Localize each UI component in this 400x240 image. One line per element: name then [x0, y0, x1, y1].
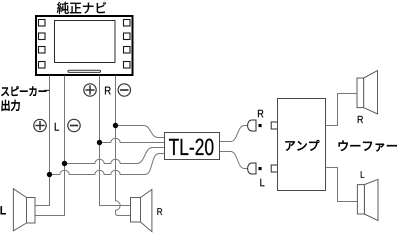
junction dot L-: [62, 161, 67, 166]
wire amp to woofer R: [326, 94, 358, 126]
nav connector square right 4: [124, 62, 131, 69]
RCA plug R body: [248, 120, 256, 131]
wire tap L- to TL-20 input 3, hops over R+ and R- wires: [65, 148, 165, 164]
junction dot R+: [97, 140, 102, 145]
nav connector square left 1: [39, 20, 46, 27]
woofer L cone: [364, 179, 378, 220]
wire R- from nav down to right speaker lower terminal, hop over R+ wire: [116, 76, 131, 216]
nav connector square left 3: [39, 47, 46, 54]
amplifier box: [278, 99, 326, 191]
nav disc slot: [68, 70, 101, 72]
RCA plug L body: [248, 163, 256, 174]
nav connector square right 3: [124, 47, 131, 54]
minus symbol (L channel): [68, 119, 80, 131]
amp input jack L: [271, 165, 278, 172]
TL-20 line output converter box: [165, 133, 220, 160]
wire TL-20 output L to RCA plug L: [220, 152, 248, 169]
nav connector square right 2: [124, 33, 131, 40]
leader line from スピーカー label to wire: [44, 89, 50, 91]
plus symbol (L channel): [34, 119, 46, 131]
label R (front speaker right): [157, 208, 162, 215]
nav connector square right 1: [124, 20, 131, 27]
junction dot L+: [47, 172, 52, 177]
wire amp to woofer L: [326, 168, 358, 202]
wire TL-20 output R to RCA plug R: [220, 126, 248, 142]
nav connector square left 4: [39, 62, 46, 69]
label L (front speaker left): [1, 206, 6, 214]
label R (woofer right): [358, 116, 363, 123]
label R (nav speaker output right): [105, 87, 111, 95]
label TL-20: [169, 139, 213, 156]
label 出力 (output): [2, 100, 20, 111]
label R (RCA right): [258, 110, 263, 117]
label スピーカー (speaker): [1, 86, 46, 96]
woofer R driver: [357, 78, 364, 108]
RCA plug R pin: [259, 124, 262, 127]
label L (nav speaker output left): [55, 123, 59, 131]
label L (RCA left): [260, 179, 264, 186]
minus symbol (R channel): [118, 84, 130, 96]
label L (woofer left): [361, 171, 365, 178]
RCA plug L pin: [259, 167, 262, 170]
plus symbol (R channel): [84, 84, 96, 96]
wire R+ from nav down to right speaker upper terminal: [100, 76, 131, 206]
wire tap R- to TL-20 input 1: [116, 126, 165, 138]
woofer R cone: [364, 71, 378, 114]
wire tap R+ to TL-20 input 2, hop over R- wire: [100, 138, 165, 142]
nav unit screen: [55, 21, 116, 63]
front speaker L cone: [13, 189, 26, 231]
wire L- from nav down to left speaker lower terminal: [35, 76, 65, 216]
front speaker R driver: [131, 198, 141, 223]
woofer L driver: [357, 185, 364, 214]
label ウーファー (woofer): [339, 141, 397, 152]
nav connector square left 2: [39, 33, 46, 40]
nav head unit outer box: [36, 16, 133, 75]
label 純正ナビ (OEM nav unit title): [57, 2, 106, 14]
wire L+ from nav down to left speaker upper terminal: [35, 76, 50, 206]
front speaker L driver: [27, 198, 36, 224]
amp input jack R: [271, 122, 278, 129]
wire tap L+ to TL-20 input 4, hops over L-, R+, R- wires: [50, 154, 165, 175]
junction dot R-: [113, 123, 118, 128]
label アンプ (amp): [285, 140, 319, 151]
front speaker R cone: [141, 190, 152, 232]
